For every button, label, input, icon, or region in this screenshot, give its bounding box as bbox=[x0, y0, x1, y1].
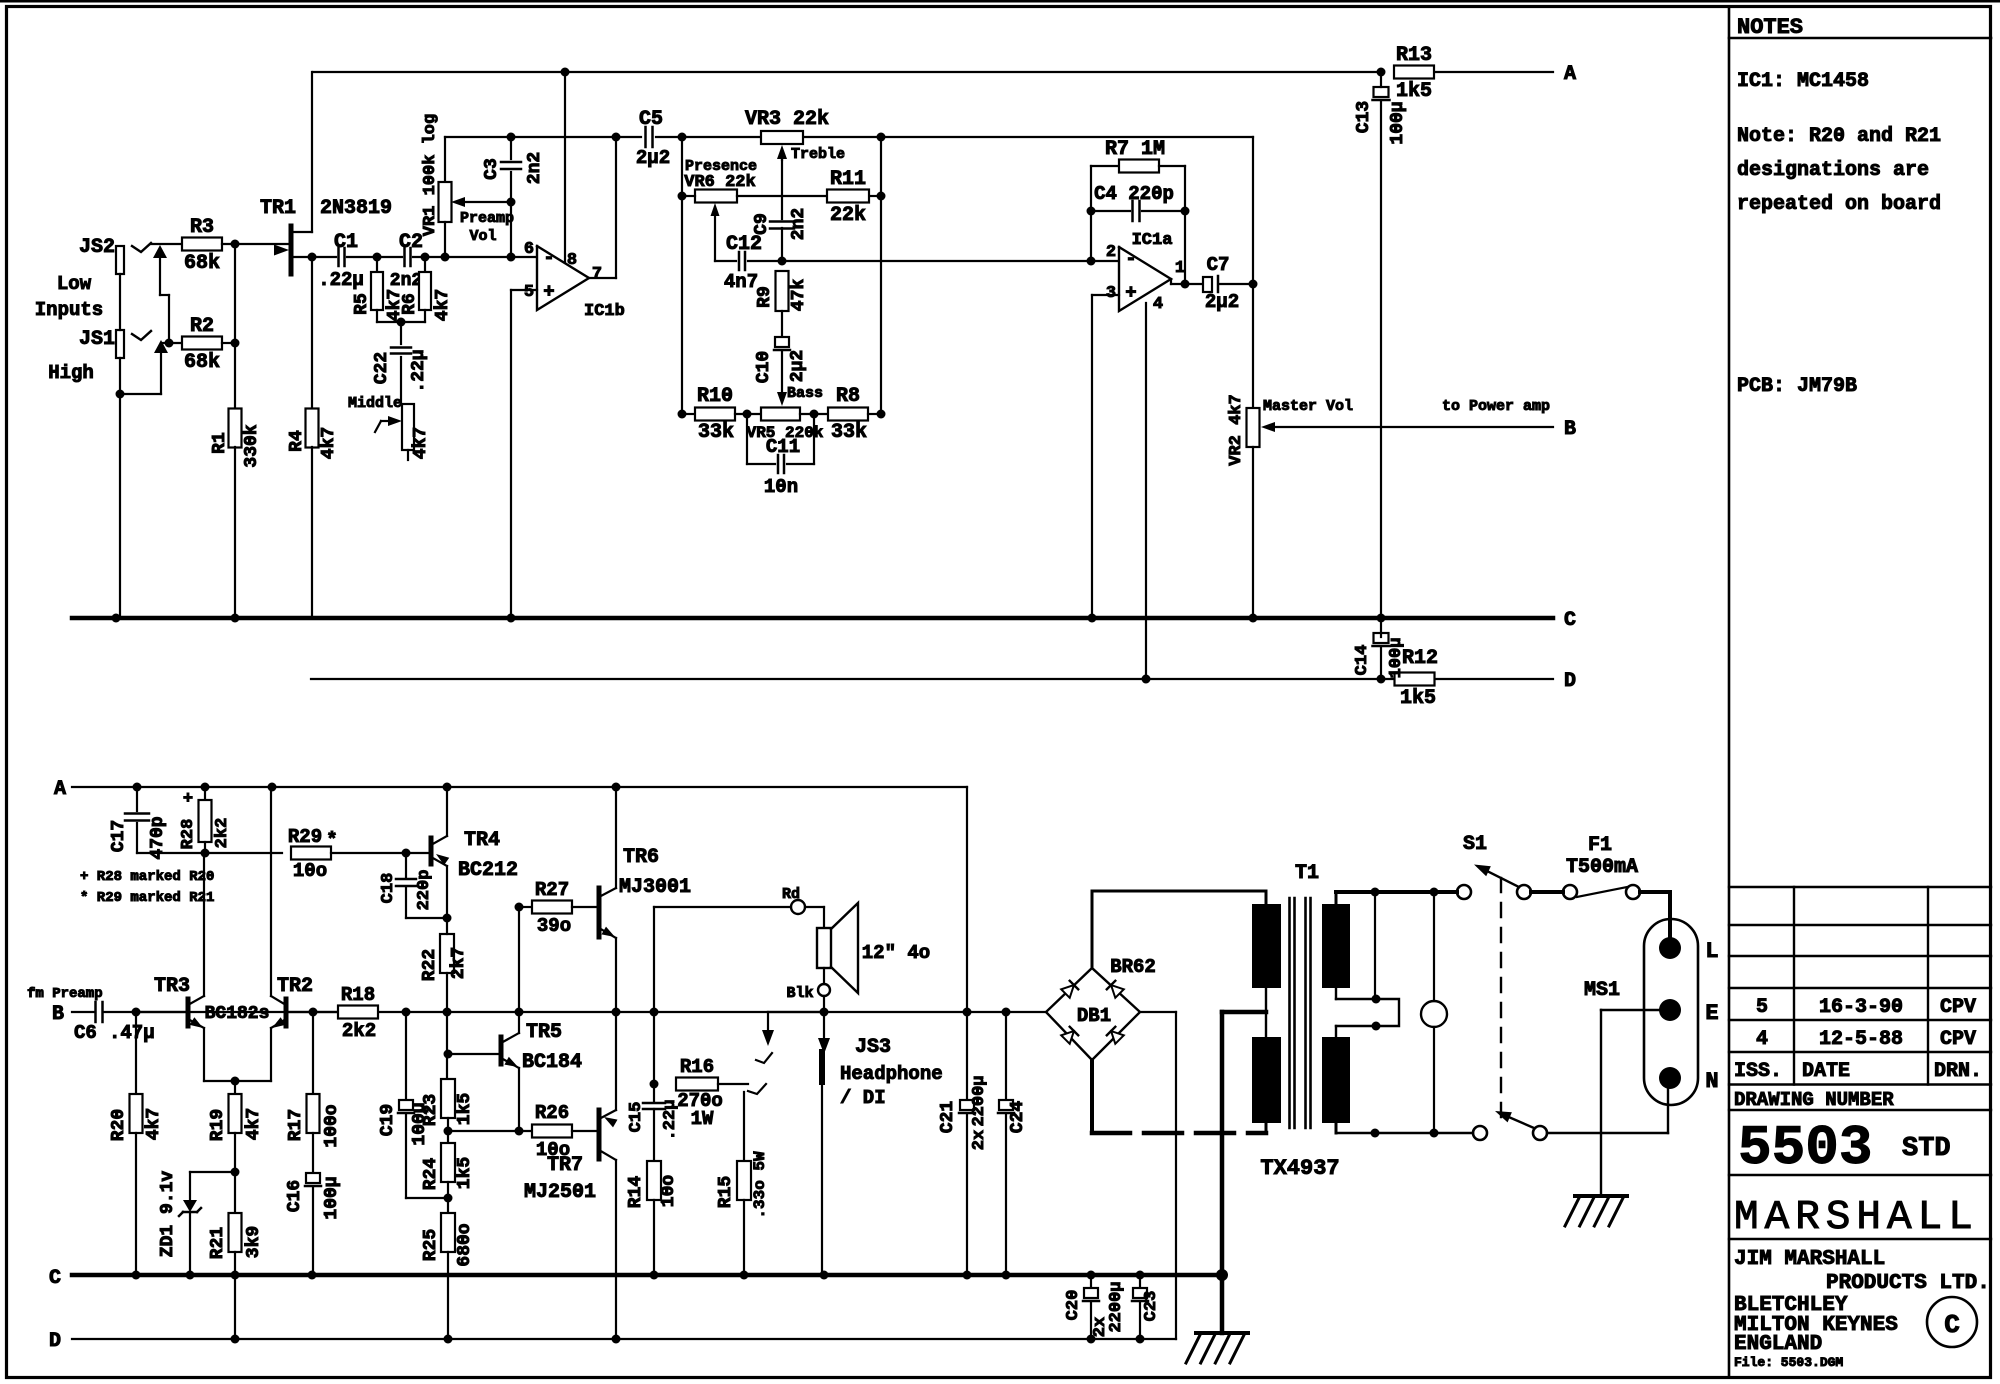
svg-text:4: 4 bbox=[1153, 295, 1163, 314]
svg-text:to Power amp: to Power amp bbox=[1442, 398, 1550, 415]
svg-text:Vol: Vol bbox=[469, 228, 496, 245]
svg-text:R6: R6 bbox=[400, 293, 420, 315]
svg-text:4: 4 bbox=[1756, 1028, 1768, 1051]
svg-text:JIM MARSHALL: JIM MARSHALL bbox=[1734, 1248, 1885, 1271]
svg-text:E: E bbox=[1705, 1001, 1718, 1026]
svg-text:VR2 4k7: VR2 4k7 bbox=[1227, 394, 1246, 465]
svg-text:2µ2: 2µ2 bbox=[636, 147, 670, 169]
svg-text:JS2: JS2 bbox=[79, 236, 115, 259]
svg-text:3k9: 3k9 bbox=[244, 1226, 264, 1258]
svg-text:R16: R16 bbox=[680, 1056, 714, 1078]
svg-text:39o: 39o bbox=[537, 915, 571, 937]
svg-text:100o: 100o bbox=[322, 1104, 342, 1147]
svg-text:C: C bbox=[1944, 1310, 1960, 1340]
svg-text:ISS.: ISS. bbox=[1734, 1060, 1782, 1083]
svg-text:NOTES: NOTES bbox=[1737, 15, 1803, 40]
svg-text:2k7: 2k7 bbox=[449, 947, 469, 979]
svg-text:C24: C24 bbox=[1008, 1101, 1028, 1134]
svg-text:R25: R25 bbox=[421, 1229, 441, 1261]
svg-text:R24: R24 bbox=[421, 1158, 441, 1191]
svg-text:2µ2: 2µ2 bbox=[788, 350, 808, 382]
svg-text:TR6: TR6 bbox=[623, 846, 659, 869]
svg-text:100µ: 100µ bbox=[1388, 101, 1408, 144]
svg-text:4k7: 4k7 bbox=[411, 427, 431, 459]
svg-text:3: 3 bbox=[1106, 284, 1116, 303]
svg-text:L: L bbox=[1705, 939, 1718, 964]
svg-text:R5: R5 bbox=[352, 293, 372, 315]
svg-text:7: 7 bbox=[592, 265, 602, 284]
svg-text:-: - bbox=[543, 247, 554, 269]
svg-text:Treble: Treble bbox=[791, 146, 845, 163]
svg-text:STD: STD bbox=[1902, 1134, 1951, 1164]
svg-text:Master Vol: Master Vol bbox=[1263, 398, 1353, 415]
svg-text:B: B bbox=[1564, 418, 1576, 441]
svg-text:Blk: Blk bbox=[786, 985, 813, 1002]
svg-text:Preamp: Preamp bbox=[460, 210, 514, 227]
svg-text:8: 8 bbox=[567, 251, 577, 270]
svg-text:R17: R17 bbox=[286, 1109, 306, 1141]
svg-text:68k: 68k bbox=[184, 252, 220, 275]
svg-text:100µ: 100µ bbox=[1387, 638, 1406, 679]
svg-text:R2: R2 bbox=[190, 315, 214, 338]
svg-text:T1: T1 bbox=[1295, 862, 1319, 885]
svg-text:4k7: 4k7 bbox=[433, 289, 453, 321]
svg-text:100µ: 100µ bbox=[322, 1176, 342, 1219]
svg-text:DATE: DATE bbox=[1802, 1060, 1850, 1083]
svg-text:*: * bbox=[326, 829, 337, 851]
svg-text:.22µ: .22µ bbox=[318, 269, 364, 291]
svg-text:R27: R27 bbox=[535, 879, 569, 901]
svg-text:R10: R10 bbox=[697, 385, 733, 408]
svg-text:C5: C5 bbox=[639, 108, 663, 131]
svg-text:TR2: TR2 bbox=[277, 975, 313, 998]
svg-text:R4: R4 bbox=[287, 430, 307, 452]
svg-text:R8: R8 bbox=[836, 385, 860, 408]
svg-text:10n: 10n bbox=[764, 476, 798, 498]
svg-text:5503: 5503 bbox=[1738, 1116, 1872, 1180]
svg-text:2x: 2x bbox=[970, 1130, 989, 1150]
svg-text:IC1: MC1458: IC1: MC1458 bbox=[1737, 70, 1869, 93]
svg-text:16-3-90: 16-3-90 bbox=[1819, 996, 1903, 1019]
svg-text:Rd: Rd bbox=[782, 886, 800, 903]
svg-text:R28: R28 bbox=[179, 819, 198, 850]
svg-text:BC182s: BC182s bbox=[205, 1004, 270, 1024]
svg-text:220p: 220p bbox=[415, 870, 434, 911]
svg-text:10o: 10o bbox=[659, 1175, 679, 1207]
svg-text:+: + bbox=[1125, 282, 1136, 304]
svg-text:TR5: TR5 bbox=[526, 1021, 562, 1044]
svg-text:ENGLAND: ENGLAND bbox=[1734, 1333, 1822, 1356]
svg-text:R19: R19 bbox=[208, 1109, 228, 1141]
svg-text:1k5: 1k5 bbox=[455, 1157, 475, 1189]
svg-text:TR1: TR1 bbox=[260, 197, 296, 220]
svg-text:R26: R26 bbox=[535, 1102, 569, 1124]
svg-text:10o: 10o bbox=[293, 860, 327, 882]
svg-text:R13: R13 bbox=[1396, 44, 1432, 67]
svg-text:C20: C20 bbox=[1064, 1290, 1083, 1321]
svg-text:C19: C19 bbox=[378, 1104, 398, 1136]
svg-text:repeated on board: repeated on board bbox=[1737, 193, 1941, 216]
svg-text:C7: C7 bbox=[1207, 254, 1230, 276]
svg-text:N: N bbox=[1705, 1069, 1718, 1094]
svg-text:R1: R1 bbox=[210, 432, 230, 454]
svg-text:R18: R18 bbox=[341, 984, 375, 1006]
svg-text:33k: 33k bbox=[698, 421, 734, 444]
svg-text:C3: C3 bbox=[482, 158, 502, 180]
svg-text:2µ2: 2µ2 bbox=[1205, 291, 1239, 313]
svg-text:1W: 1W bbox=[691, 1108, 714, 1130]
svg-text:5: 5 bbox=[524, 283, 534, 302]
svg-text:Bass: Bass bbox=[787, 385, 823, 402]
svg-text:* R29 marked R21: * R29 marked R21 bbox=[80, 890, 214, 906]
svg-text:BC184: BC184 bbox=[522, 1051, 582, 1074]
svg-text:B: B bbox=[52, 1003, 64, 1026]
svg-text:PRODUCTS LTD.: PRODUCTS LTD. bbox=[1826, 1272, 1990, 1295]
svg-text:C22: C22 bbox=[372, 352, 392, 384]
svg-text:C23: C23 bbox=[1142, 1291, 1161, 1322]
svg-text:.22µ: .22µ bbox=[409, 349, 429, 392]
svg-text:2n2: 2n2 bbox=[789, 208, 809, 240]
svg-text:C15: C15 bbox=[627, 1102, 646, 1133]
svg-text:C6: C6 bbox=[74, 1022, 97, 1044]
svg-text:.47µ: .47µ bbox=[109, 1022, 155, 1044]
svg-text:C16: C16 bbox=[285, 1180, 305, 1212]
svg-text:2n2: 2n2 bbox=[525, 152, 545, 184]
svg-text:MJ3001: MJ3001 bbox=[619, 876, 691, 899]
svg-text:D: D bbox=[1564, 670, 1576, 693]
svg-text:R20: R20 bbox=[109, 1109, 129, 1141]
svg-text:C: C bbox=[49, 1267, 61, 1290]
svg-text:2: 2 bbox=[1106, 243, 1116, 262]
svg-text:/ DI: / DI bbox=[840, 1087, 886, 1109]
svg-text:33k: 33k bbox=[831, 421, 867, 444]
svg-text:Headphone: Headphone bbox=[840, 1063, 943, 1085]
svg-text:CPV: CPV bbox=[1940, 1028, 1976, 1051]
svg-text:2n2: 2n2 bbox=[390, 271, 422, 291]
svg-text:Middle: Middle bbox=[348, 395, 402, 412]
svg-text:R29: R29 bbox=[288, 826, 322, 848]
svg-text:IC1b: IC1b bbox=[584, 302, 625, 321]
svg-text:fm Preamp: fm Preamp bbox=[27, 986, 103, 1002]
svg-text:R22: R22 bbox=[420, 949, 440, 981]
svg-text:22k: 22k bbox=[830, 204, 866, 227]
svg-text:R3: R3 bbox=[190, 216, 214, 239]
svg-text:T500mA: T500mA bbox=[1566, 856, 1638, 879]
svg-text:A: A bbox=[1564, 63, 1576, 86]
svg-text:+ R28 marked R20: + R28 marked R20 bbox=[80, 869, 214, 885]
svg-text:DB1: DB1 bbox=[1077, 1005, 1111, 1027]
svg-text:Inputs: Inputs bbox=[35, 299, 103, 321]
svg-text:2k2: 2k2 bbox=[213, 818, 232, 849]
svg-text:C1: C1 bbox=[334, 231, 358, 254]
svg-text:Note: R20 and R21: Note: R20 and R21 bbox=[1737, 125, 1941, 148]
svg-text:C12: C12 bbox=[726, 233, 762, 256]
svg-text:C9: C9 bbox=[752, 213, 772, 235]
svg-text:R7 1M: R7 1M bbox=[1105, 138, 1165, 161]
svg-text:JS3: JS3 bbox=[855, 1036, 891, 1059]
svg-text:R23: R23 bbox=[421, 1094, 441, 1126]
svg-text:VR3 22k: VR3 22k bbox=[745, 108, 829, 131]
svg-text:C21: C21 bbox=[938, 1101, 958, 1134]
svg-text:6: 6 bbox=[524, 240, 534, 259]
svg-text:BC212: BC212 bbox=[458, 859, 518, 882]
svg-text:designations are: designations are bbox=[1737, 159, 1929, 182]
svg-text:1k5: 1k5 bbox=[1396, 80, 1432, 103]
svg-text:PCB: JM79B: PCB: JM79B bbox=[1737, 375, 1857, 398]
svg-text:R21: R21 bbox=[208, 1227, 228, 1260]
svg-text:TR4: TR4 bbox=[464, 829, 500, 852]
svg-text:IC1a: IC1a bbox=[1132, 231, 1173, 250]
svg-text:R11: R11 bbox=[830, 168, 866, 191]
svg-text:4k7: 4k7 bbox=[319, 427, 339, 459]
svg-text:C2: C2 bbox=[399, 231, 423, 254]
svg-text:1: 1 bbox=[1175, 259, 1185, 278]
svg-text:C4 220p: C4 220p bbox=[1094, 183, 1174, 205]
svg-text:12-5-88: 12-5-88 bbox=[1819, 1028, 1903, 1051]
svg-text:4n7: 4n7 bbox=[724, 271, 758, 293]
svg-text:1k5: 1k5 bbox=[455, 1093, 475, 1125]
svg-text:F1: F1 bbox=[1588, 834, 1612, 857]
svg-text:5: 5 bbox=[1756, 996, 1768, 1019]
svg-text:R14: R14 bbox=[626, 1176, 646, 1209]
svg-text:TR7: TR7 bbox=[547, 1154, 583, 1177]
svg-text:4k7: 4k7 bbox=[244, 1108, 264, 1140]
svg-text:CPV: CPV bbox=[1940, 996, 1976, 1019]
svg-text:MJ2501: MJ2501 bbox=[524, 1181, 596, 1204]
svg-text:File: 5503.DGM: File: 5503.DGM bbox=[1734, 1355, 1843, 1370]
svg-text:MARSHALL: MARSHALL bbox=[1734, 1195, 1979, 1241]
svg-text:S1: S1 bbox=[1463, 833, 1487, 856]
svg-text:C18: C18 bbox=[379, 873, 398, 904]
svg-text:D: D bbox=[49, 1330, 61, 1353]
svg-text:MS1: MS1 bbox=[1584, 979, 1620, 1002]
svg-text:C14: C14 bbox=[1353, 645, 1372, 676]
svg-text:Low: Low bbox=[57, 273, 92, 295]
svg-text:R12: R12 bbox=[1402, 647, 1438, 670]
svg-text:C11: C11 bbox=[766, 436, 800, 458]
svg-text:+: + bbox=[543, 281, 554, 303]
svg-text:C10: C10 bbox=[754, 351, 774, 383]
svg-text:2200µ: 2200µ bbox=[970, 1075, 989, 1126]
svg-text:VR1 100k log: VR1 100k log bbox=[421, 114, 440, 236]
svg-text:12" 4o: 12" 4o bbox=[862, 942, 930, 964]
svg-text:68k: 68k bbox=[184, 351, 220, 374]
svg-text:330k: 330k bbox=[242, 424, 262, 467]
svg-text:.33o 5W: .33o 5W bbox=[751, 1151, 769, 1219]
svg-text:C17: C17 bbox=[109, 820, 129, 852]
svg-text:R15: R15 bbox=[716, 1176, 736, 1208]
svg-text:680o: 680o bbox=[455, 1223, 475, 1266]
svg-text:C13: C13 bbox=[1354, 101, 1374, 133]
svg-text:BR62: BR62 bbox=[1110, 956, 1156, 978]
svg-text:2200µ: 2200µ bbox=[1107, 1281, 1126, 1332]
svg-text:TX4937: TX4937 bbox=[1260, 1156, 1339, 1181]
svg-text:1k5: 1k5 bbox=[1400, 687, 1436, 710]
svg-text:-: - bbox=[1125, 248, 1136, 270]
svg-text:High: High bbox=[48, 362, 94, 384]
svg-text:+: + bbox=[183, 790, 193, 809]
svg-text:4k7: 4k7 bbox=[144, 1108, 164, 1140]
svg-text:DRN.: DRN. bbox=[1934, 1060, 1982, 1083]
svg-text:TR3: TR3 bbox=[154, 975, 190, 998]
svg-text:A: A bbox=[54, 778, 66, 801]
svg-text:JS1: JS1 bbox=[79, 328, 115, 351]
svg-text:ZD1 9.1v: ZD1 9.1v bbox=[158, 1171, 178, 1258]
svg-text:2k2: 2k2 bbox=[342, 1020, 376, 1042]
svg-text:2N3819: 2N3819 bbox=[320, 197, 392, 220]
svg-text:47k: 47k bbox=[789, 279, 809, 312]
svg-text:DRAWING NUMBER: DRAWING NUMBER bbox=[1734, 1089, 1894, 1111]
svg-text:C: C bbox=[1564, 609, 1576, 632]
